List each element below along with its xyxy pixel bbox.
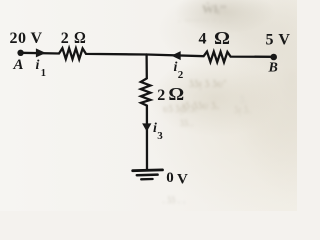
svg-text:5 V: 5 V: [266, 32, 291, 49]
svg-text:2: 2: [157, 87, 165, 104]
svg-text:i: i: [36, 58, 40, 73]
svg-text:4: 4: [199, 31, 207, 48]
svg-text:20 V: 20 V: [10, 30, 43, 47]
svg-text:V: V: [177, 171, 188, 187]
svg-text:B: B: [268, 61, 278, 76]
svg-text:0: 0: [166, 170, 174, 186]
svg-text:1: 1: [41, 68, 46, 79]
svg-text:A: A: [13, 57, 24, 73]
svg-text:Ω: Ω: [74, 28, 86, 47]
svg-text:Ω: Ω: [214, 28, 230, 48]
svg-text:2: 2: [178, 69, 184, 81]
svg-text:3: 3: [157, 130, 163, 142]
svg-text:2: 2: [61, 30, 69, 47]
svg-text:Ω: Ω: [168, 84, 184, 104]
